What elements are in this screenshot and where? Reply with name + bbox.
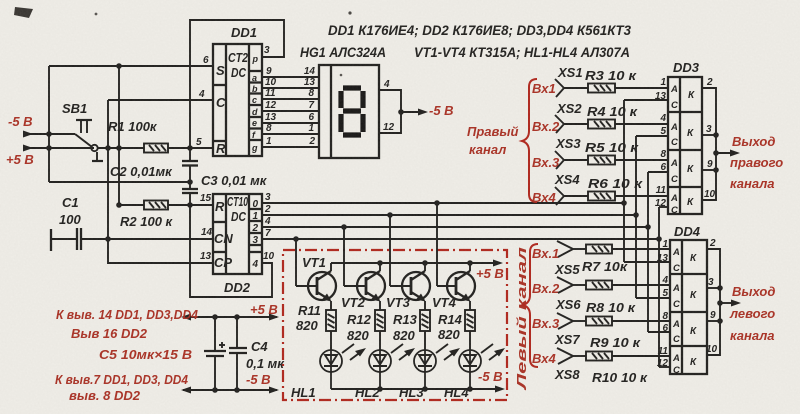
control verticals <box>623 100 625 262</box>
wire +5V distribution <box>183 316 277 318</box>
DD1 right column segment letters <box>251 54 259 153</box>
connector XS8 <box>557 348 670 364</box>
resistor R10 <box>586 352 612 361</box>
node HG1 common <box>398 109 404 115</box>
junction dots distribution <box>212 314 240 393</box>
connector XS5 <box>557 241 670 257</box>
arrow +5V dist right <box>269 314 279 321</box>
LED HL1 <box>320 344 362 389</box>
IC DD2 K176IE8 counter <box>213 194 262 274</box>
connector XS3 <box>555 151 668 169</box>
resistor R3 <box>588 84 615 93</box>
wire -5V emitter rail <box>331 388 500 390</box>
DD1-side segment pin numbers 9,10,11,12,13,8,1 <box>265 66 277 147</box>
connector XS1 <box>555 79 668 97</box>
resistor R7 <box>586 245 612 254</box>
display HG1 ALS324A <box>319 65 379 158</box>
IC DD3 K561KT3 <box>668 77 702 214</box>
wire -5V rail to C2C3 node <box>49 181 190 183</box>
capacitor C1 <box>51 228 81 251</box>
arrow -5V dist left <box>181 387 191 394</box>
brace left channel <box>523 244 538 367</box>
arrow +5V dist left <box>181 314 191 321</box>
DD2 right pin numbers <box>263 192 275 262</box>
transistor VT2 <box>344 227 385 310</box>
resistor R9 <box>586 317 612 326</box>
capacitor C2 <box>182 161 198 166</box>
wires DD1 segment outputs to HG1 <box>262 77 319 147</box>
wire +5V collector rail <box>331 262 498 264</box>
wire S line <box>49 65 213 67</box>
LED HL3 <box>414 344 456 389</box>
wire DD2 pin10 wrap-around <box>190 205 272 297</box>
DD3 control stubs <box>624 100 670 367</box>
wire C pin horizontal <box>108 99 213 101</box>
wire +5V supply line <box>23 147 94 149</box>
transistor VT4 <box>437 203 475 310</box>
wire DD2 control line 0 <box>262 202 624 204</box>
arrow -5V left <box>23 131 33 138</box>
resistor R6 <box>588 192 615 201</box>
brace right channel <box>522 79 537 202</box>
resistor R4 <box>588 120 615 129</box>
scan smudge top-left <box>14 7 33 18</box>
switch SB1 <box>75 120 103 161</box>
wire DD1 P feedback loop <box>190 20 284 148</box>
connector XS4 <box>555 187 668 205</box>
resistor R5 <box>588 156 615 165</box>
IC DD4 K561KT3 <box>670 240 707 374</box>
wire C pin line vertical A <box>108 100 213 263</box>
DD3 outputs <box>702 88 735 200</box>
wire left vertical bus <box>48 66 50 182</box>
wire C1 to DD2 CN pin <box>51 238 77 240</box>
connector XS6 <box>557 277 670 293</box>
DD4 outputs <box>707 249 736 355</box>
junction dots left area <box>46 63 193 242</box>
resistor R14 <box>465 310 475 350</box>
wire C2 column <box>189 148 191 161</box>
LED HL2 <box>369 344 411 389</box>
resistor R2 <box>144 201 168 210</box>
junction dots channel box <box>293 200 473 392</box>
wire -5V supply line <box>23 133 75 135</box>
connector XS2 <box>555 115 668 133</box>
transistor VT1 <box>296 239 336 310</box>
resistor R12 <box>375 310 385 350</box>
resistor R1 <box>144 144 168 153</box>
arrow +5V rail <box>493 260 503 267</box>
DD3 left pin numbers <box>655 77 667 209</box>
LED HL4 <box>459 344 501 389</box>
arrow +5V left <box>23 145 33 152</box>
DD4 control stubs <box>624 261 670 263</box>
HG1-side pin numbers 14,13,8,7,6,1,2 <box>304 66 316 147</box>
wire DD2 control line 2 <box>262 226 648 228</box>
IC DD1 K176IE4 counter <box>213 44 262 156</box>
resistor R8 <box>586 281 612 290</box>
resistor R13 <box>420 310 430 350</box>
wire switch to R1 to DD1 R pin <box>97 147 144 149</box>
paper texture <box>0 0 1 1</box>
transistor VT3 <box>390 215 430 310</box>
left channel dashed red box <box>283 250 507 400</box>
capacitor C3 <box>182 189 198 193</box>
connector XS7 <box>557 313 670 329</box>
capacitor C4 <box>229 317 247 390</box>
HG1 pin 4 wire <box>379 90 423 133</box>
resistor R11 <box>326 310 336 350</box>
DD4 left pin numbers <box>657 239 669 369</box>
wire -5V distribution <box>183 389 277 391</box>
wire DD2 control line 3 <box>262 238 659 240</box>
arrow -5V dist right <box>269 387 279 394</box>
wire vertical B S-to-R2 <box>118 66 120 205</box>
arrow to -5V <box>418 109 428 116</box>
wire R2 line to DD2 R pin <box>119 204 144 206</box>
wire DD2 control line 1 <box>262 214 636 216</box>
capacitor C5 electrolytic <box>204 317 226 390</box>
DD2 right column digits <box>252 199 259 270</box>
HG1 seven-segment digit 8 <box>341 88 363 135</box>
arrow -5V rail <box>495 386 505 393</box>
